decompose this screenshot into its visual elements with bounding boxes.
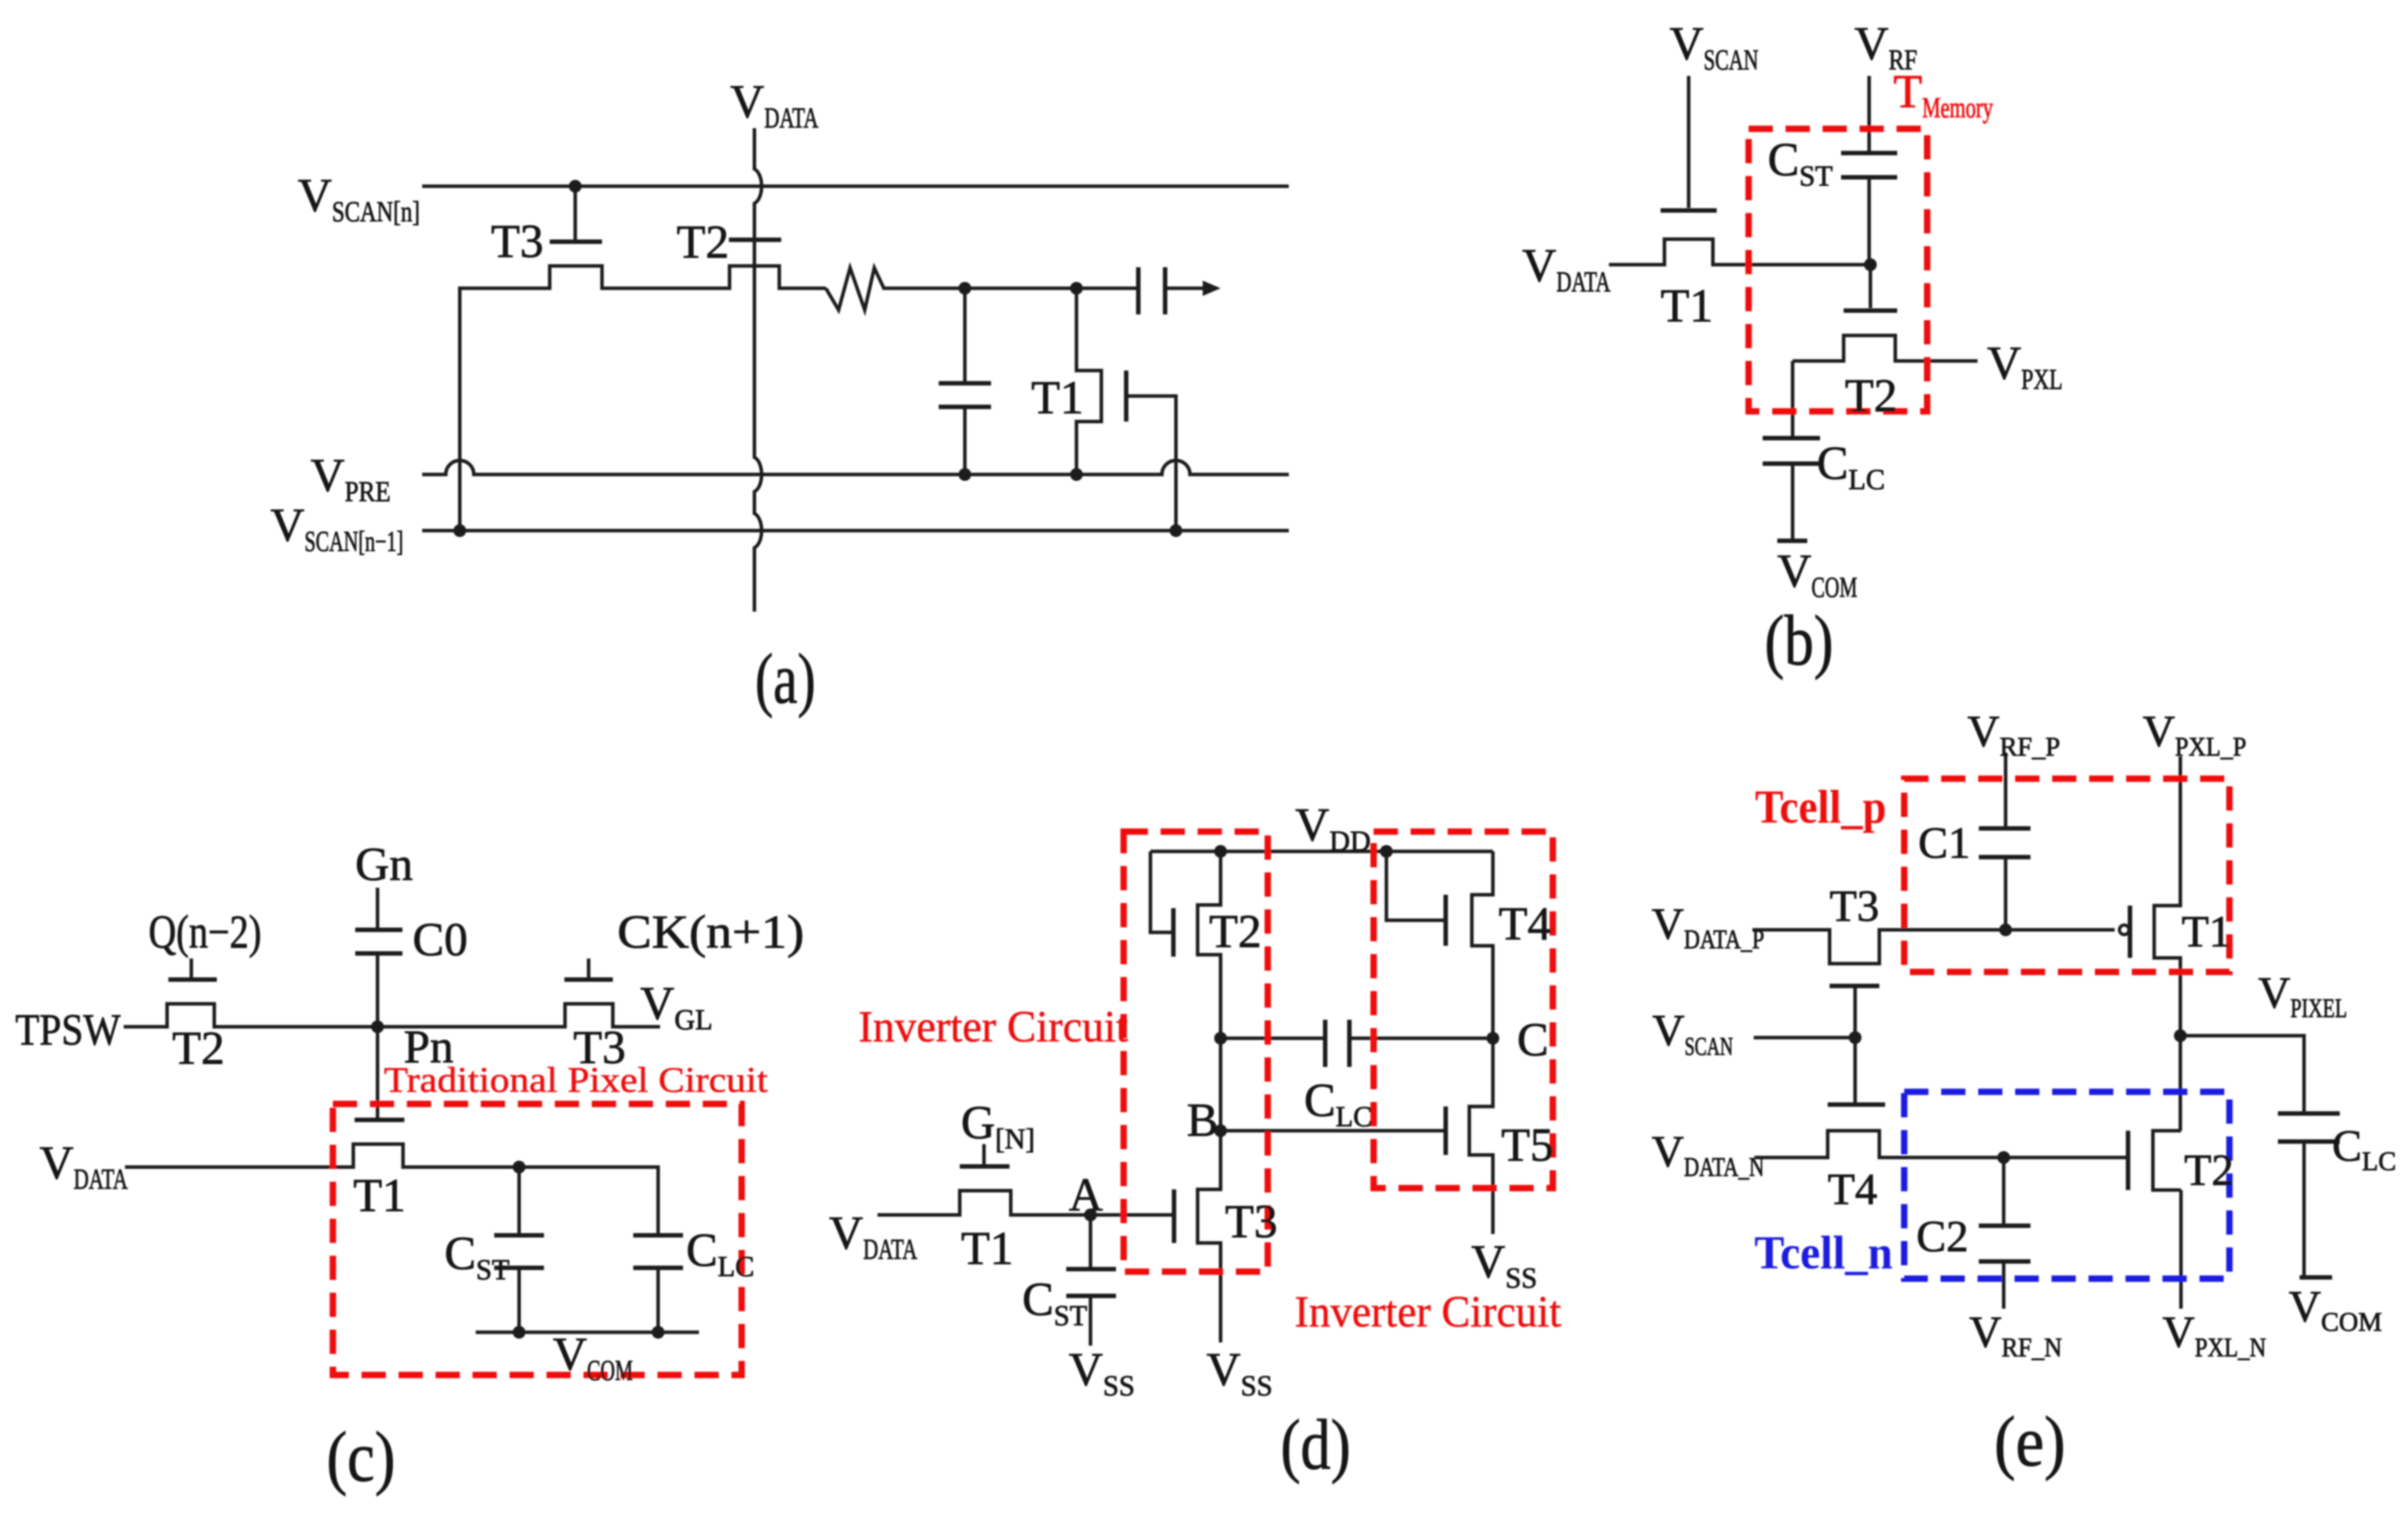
svg-text:Traditional Pixel Circuit: Traditional Pixel Circuit: [384, 1061, 768, 1100]
svg-text:T1: T1: [961, 1223, 1013, 1275]
svg-text:T4: T4: [1828, 1165, 1877, 1214]
svg-text:(a): (a): [755, 640, 816, 719]
svg-text:Q(n−2): Q(n−2): [149, 906, 261, 959]
svg-text:Inverter Circuit: Inverter Circuit: [1295, 1288, 1562, 1337]
svg-text:T1: T1: [353, 1170, 406, 1222]
svg-text:Gn: Gn: [355, 839, 413, 891]
svg-text:TPSW: TPSW: [15, 1006, 121, 1055]
svg-text:T3: T3: [1830, 882, 1879, 931]
svg-text:C1: C1: [1918, 819, 1971, 868]
svg-text:B: B: [1187, 1094, 1218, 1147]
svg-text:T2: T2: [1209, 906, 1261, 958]
svg-text:(c): (c): [327, 1418, 395, 1497]
svg-text:(b): (b): [1765, 601, 1833, 680]
svg-text:T5: T5: [1501, 1119, 1553, 1172]
svg-text:T1: T1: [1661, 280, 1713, 332]
svg-text:T2: T2: [2184, 1146, 2234, 1195]
svg-text:Inverter Circuit: Inverter Circuit: [858, 1003, 1129, 1052]
svg-text:(d): (d): [1281, 1406, 1351, 1485]
svg-text:C: C: [1517, 1014, 1548, 1066]
svg-text:T3: T3: [491, 216, 543, 268]
svg-text:T1: T1: [1031, 372, 1083, 424]
svg-text:C2: C2: [1916, 1212, 1969, 1261]
svg-text:T2: T2: [677, 216, 729, 268]
svg-text:T2: T2: [1845, 370, 1897, 422]
svg-text:CK(n+1): CK(n+1): [617, 906, 804, 959]
svg-text:Tcell_p: Tcell_p: [1755, 781, 1886, 834]
svg-text:C0: C0: [413, 914, 467, 966]
svg-text:T3: T3: [1225, 1196, 1277, 1248]
svg-text:T2: T2: [172, 1022, 224, 1075]
svg-text:(e): (e): [1994, 1402, 2066, 1481]
svg-text:T1: T1: [2182, 908, 2231, 957]
svg-text:A: A: [1069, 1169, 1103, 1221]
svg-text:Tcell_n: Tcell_n: [1754, 1227, 1893, 1279]
svg-text:T4: T4: [1499, 898, 1551, 950]
